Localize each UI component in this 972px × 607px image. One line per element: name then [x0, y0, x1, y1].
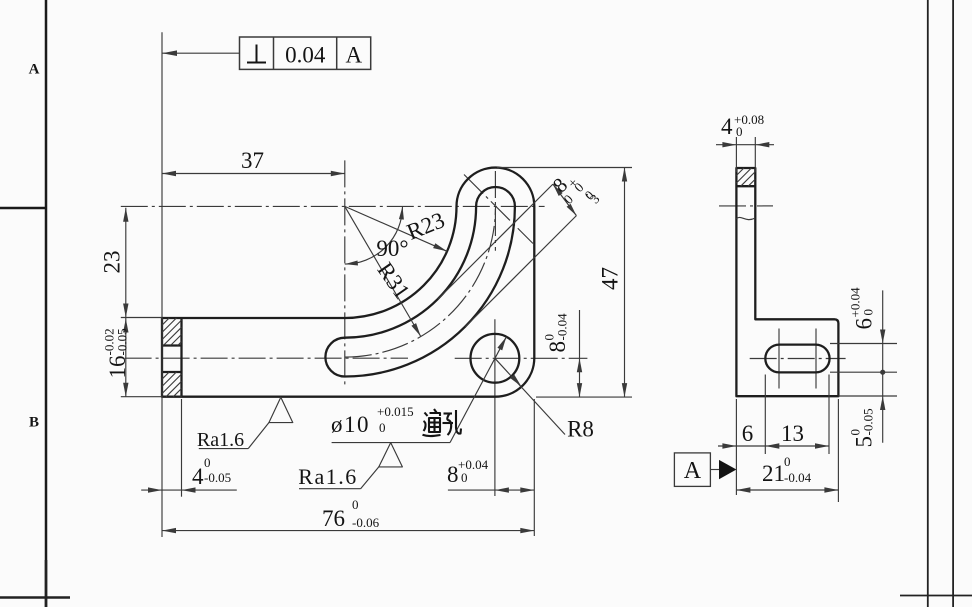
svg-text:0: 0	[352, 497, 359, 512]
svg-text:B: B	[29, 415, 39, 431]
svg-text:16: 16	[105, 356, 130, 379]
svg-text:6: 6	[852, 318, 877, 330]
svg-text:23: 23	[100, 251, 125, 274]
svg-text:-0.04: -0.04	[555, 313, 570, 341]
svg-text:0.04: 0.04	[285, 43, 326, 68]
svg-text:37: 37	[241, 148, 264, 173]
svg-text:0: 0	[784, 454, 791, 469]
svg-text:13: 13	[781, 421, 804, 446]
svg-text:A: A	[345, 43, 362, 68]
svg-text:0: 0	[861, 309, 876, 316]
svg-text:Ra1.6: Ra1.6	[197, 429, 244, 451]
svg-text:A: A	[684, 458, 702, 484]
svg-text:-0.05: -0.05	[204, 470, 231, 485]
svg-text:0: 0	[204, 455, 211, 470]
svg-text:6: 6	[742, 421, 754, 446]
svg-text:-0.06: -0.06	[352, 515, 380, 530]
svg-text:76: 76	[322, 506, 345, 531]
svg-text:A: A	[29, 62, 40, 78]
svg-text:47: 47	[598, 267, 623, 290]
svg-text:4: 4	[192, 464, 204, 489]
svg-text:4: 4	[721, 114, 733, 139]
svg-text:ø10: ø10	[331, 412, 370, 437]
svg-text:21: 21	[762, 461, 785, 486]
svg-text:+0.015: +0.015	[377, 404, 414, 419]
svg-text:0: 0	[379, 420, 386, 435]
svg-text:R8: R8	[567, 417, 594, 442]
svg-text:5: 5	[852, 436, 877, 448]
svg-text:0: 0	[736, 124, 743, 139]
svg-text:-0.04: -0.04	[784, 470, 812, 485]
svg-text:Ra1.6: Ra1.6	[298, 464, 357, 489]
svg-text:8: 8	[545, 341, 570, 353]
svg-text:0: 0	[461, 470, 468, 485]
svg-text:-0.05: -0.05	[861, 408, 876, 435]
svg-text:8: 8	[447, 462, 459, 487]
svg-text:-0.05: -0.05	[115, 328, 130, 355]
